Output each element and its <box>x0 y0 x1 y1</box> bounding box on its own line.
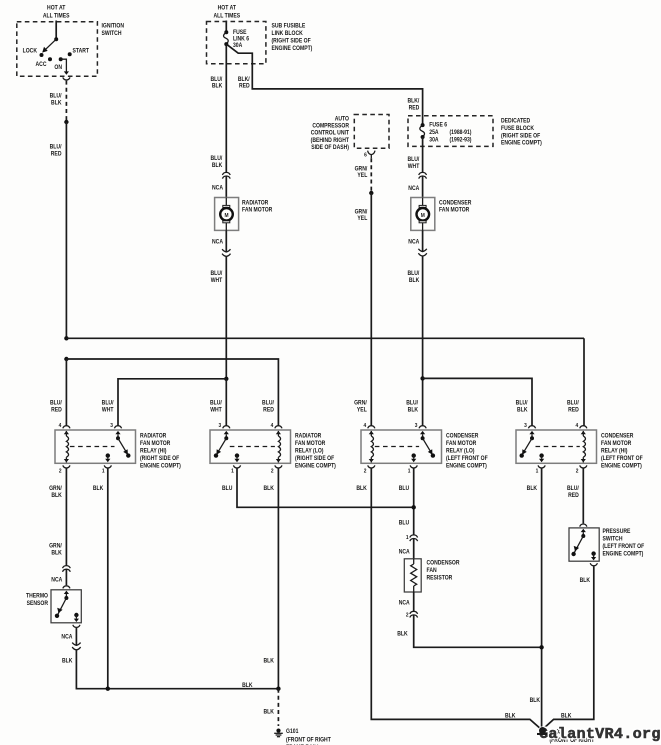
svg-text:4: 4 <box>59 423 62 429</box>
svg-text:1: 1 <box>408 468 411 474</box>
svg-text:HOT AT: HOT AT <box>47 5 66 11</box>
connector cup below thermo sensor <box>73 625 80 628</box>
svg-text:START: START <box>73 48 90 54</box>
svg-text:BLK: BLK <box>212 83 222 89</box>
terminal ON <box>59 57 63 61</box>
condenser fan resistor box <box>404 559 421 592</box>
svg-text:(FRONT OF RIGHT: (FRONT OF RIGHT <box>286 737 331 743</box>
relay dashed actuator line <box>375 446 419 448</box>
svg-text:BLU/: BLU/ <box>516 400 528 406</box>
svg-text:BLK: BLK <box>263 709 273 715</box>
svg-text:ALL TIMES: ALL TIMES <box>43 13 70 19</box>
svg-text:RELAY (HI): RELAY (HI) <box>601 448 628 454</box>
relay pin 2 (bottom) <box>275 465 282 468</box>
svg-text:HOT AT: HOT AT <box>218 5 237 11</box>
svg-text:CONTROL UNIT: CONTROL UNIT <box>311 130 350 136</box>
pressure switch output contact <box>591 551 595 555</box>
relay K3 CONDENSER FAN MOTOR RELAY (LO) box <box>361 430 442 463</box>
relay dashed actuator line <box>230 446 275 448</box>
wire bus 1 (BLU/RED) horizontal <box>66 337 584 339</box>
wire BLU/BLK dashed from ignition switch <box>65 81 67 122</box>
in-line connector (below radiator fan motor) <box>222 249 230 252</box>
wire bus 1 drop to condenser relay HI pin 4 <box>583 338 585 425</box>
svg-text:BLU/: BLU/ <box>102 400 114 406</box>
svg-text:SWITCH: SWITCH <box>602 536 622 542</box>
svg-text:BLK: BLK <box>530 697 540 703</box>
terminal ACC <box>48 57 52 61</box>
svg-text:(RIGHT SIDE OF: (RIGHT SIDE OF <box>295 455 335 461</box>
svg-text:1: 1 <box>536 468 539 474</box>
wire BLK from relay4 pin 1 to ground <box>541 468 543 730</box>
svg-text:(1992-93): (1992-93) <box>450 137 472 143</box>
svg-text:BLK: BLK <box>356 485 366 491</box>
svg-text:ENGINE COMPT): ENGINE COMPT) <box>446 463 487 469</box>
svg-text:FAN MOTOR: FAN MOTOR <box>446 440 476 446</box>
splice node (BLU/BLK to BLU/RED) <box>64 120 68 124</box>
svg-text:NCA: NCA <box>61 634 72 640</box>
svg-text:RED: RED <box>239 83 250 89</box>
svg-text:LINK 6: LINK 6 <box>233 36 249 42</box>
in-line connector 1 (resistor) <box>410 535 418 538</box>
in-line connector (thermo sensor feed) <box>63 566 71 569</box>
svg-text:4: 4 <box>363 423 366 429</box>
svg-text:SUB FUSIBLE: SUB FUSIBLE <box>271 23 305 29</box>
relay output contact <box>106 453 110 457</box>
svg-text:RELAY (LO): RELAY (LO) <box>446 448 475 454</box>
relay coil <box>276 431 281 434</box>
relay coil <box>581 431 586 434</box>
relay output contact <box>412 453 416 457</box>
svg-text:RED: RED <box>51 407 62 413</box>
svg-text:RELAY (HI): RELAY (HI) <box>140 448 167 454</box>
relay pin 2 (bottom) <box>368 465 375 468</box>
thermo sensor box <box>51 590 81 623</box>
svg-text:BLU/: BLU/ <box>407 271 419 277</box>
svg-text:RELAY (LO): RELAY (LO) <box>295 448 324 454</box>
junction node BLK (resistor return) <box>539 645 543 649</box>
wire BLK from pressure switch to ground <box>543 566 594 729</box>
auto compressor control unit dashed box <box>354 115 389 149</box>
svg-text:AUTO: AUTO <box>335 116 350 122</box>
svg-text:RADIATOR: RADIATOR <box>140 433 166 439</box>
svg-text:GRN/: GRN/ <box>49 543 62 549</box>
svg-text:BLK/: BLK/ <box>238 77 250 83</box>
wire from ON terminal out of ignition switch <box>61 59 67 71</box>
svg-text:(1988-91): (1988-91) <box>450 130 472 136</box>
relay pin 1 (bottom) <box>233 465 240 468</box>
wire BLK from thermo sensor to ground bus <box>76 650 278 689</box>
svg-text:NCA: NCA <box>408 239 419 245</box>
relay pin 2 (bottom) <box>580 465 587 468</box>
svg-text:BLU/: BLU/ <box>407 157 419 163</box>
condenser fan motor M symbol <box>422 198 424 206</box>
junction node at G101 drop <box>276 687 280 691</box>
svg-text:BLK/: BLK/ <box>407 98 419 104</box>
relay pin 1 (bottom) <box>410 465 417 468</box>
svg-text:(BEHIND RIGHT: (BEHIND RIGHT <box>311 138 350 144</box>
svg-text:SWITCH: SWITCH <box>101 30 121 36</box>
splice node (GRN/YEL) <box>369 191 373 195</box>
svg-text:YEL: YEL <box>357 407 367 413</box>
junction node BLU/BLK branch <box>420 376 424 380</box>
svg-text:ENGINE COMPT): ENGINE COMPT) <box>601 463 642 469</box>
wire BLU from relay2 pin 1 to condenser fan resistor feed <box>237 468 414 507</box>
svg-text:FAN MOTOR: FAN MOTOR <box>140 440 170 446</box>
connector cup at thermo sensor <box>63 586 70 589</box>
svg-text:BLK: BLK <box>93 485 103 491</box>
relay dashed actuator line <box>70 446 115 448</box>
svg-text:RESISTOR: RESISTOR <box>427 575 453 581</box>
svg-text:1: 1 <box>406 535 409 541</box>
thermo sensor output contact <box>74 613 78 617</box>
svg-text:(LEFT FRONT OF: (LEFT FRONT OF <box>601 455 643 461</box>
svg-text:25A: 25A <box>429 130 438 136</box>
svg-text:BLU/: BLU/ <box>210 156 222 162</box>
wire BLU/WHT from fuse 6 to condenser fan motor <box>422 137 424 173</box>
svg-text:BLK: BLK <box>51 493 61 499</box>
svg-text:YEL: YEL <box>357 173 367 179</box>
wire BLU/BLK from fuse link down to radiator fan motor <box>225 44 227 173</box>
terminal LOCK <box>40 53 44 57</box>
wire BLU/RED from relay4 pin 2 to pressure switch <box>582 468 584 523</box>
pressure switch internals <box>581 529 586 532</box>
svg-text:BLK: BLK <box>51 100 61 106</box>
fuse 6 top terminal <box>421 123 425 127</box>
relay K1 RADIATOR FAN MOTOR RELAY (HI) box <box>55 430 136 463</box>
ground G202 symbol <box>540 729 544 733</box>
junction node bus 2 <box>64 357 68 361</box>
svg-text:IGNITION: IGNITION <box>101 23 124 29</box>
relay coil <box>64 431 69 434</box>
svg-text:FUSE: FUSE <box>233 29 247 35</box>
svg-text:CONDENSER: CONDENSER <box>601 433 633 439</box>
svg-text:BLK: BLK <box>212 163 222 169</box>
svg-text:BLU/: BLU/ <box>210 271 222 277</box>
relay pin 4 (top) <box>368 426 375 429</box>
resistor zigzag element <box>413 559 415 564</box>
svg-text:RED: RED <box>568 407 579 413</box>
in-line connector (radiator fan motor feed) <box>222 172 230 175</box>
svg-text:FUSE 6: FUSE 6 <box>429 122 447 128</box>
svg-text:DEDICATED: DEDICATED <box>501 118 530 124</box>
wire BLU/BLK condenser motor down to relays <box>422 256 424 426</box>
svg-text:CONDENSER: CONDENSER <box>446 433 478 439</box>
svg-text:WHT: WHT <box>102 407 114 413</box>
svg-text:2: 2 <box>59 468 62 474</box>
svg-text:6: 6 <box>364 152 367 158</box>
svg-text:CONDENSER: CONDENSER <box>439 200 471 206</box>
svg-text:BLK: BLK <box>517 407 527 413</box>
svg-text:1: 1 <box>102 468 105 474</box>
svg-text:BLK: BLK <box>397 631 407 637</box>
svg-text:GRN/: GRN/ <box>355 166 368 172</box>
wire BLU/WHT branch to radiator relay HI pin 3 <box>118 379 226 426</box>
connector cup below ignition switch <box>63 77 70 80</box>
svg-text:NCA: NCA <box>399 549 410 555</box>
svg-text:BLU/: BLU/ <box>262 400 274 406</box>
svg-text:FAN MOTOR: FAN MOTOR <box>295 440 325 446</box>
fuse link 6 top terminal <box>224 30 228 34</box>
svg-text:BLK: BLK <box>580 578 590 584</box>
ignition switch pivot <box>54 37 58 41</box>
svg-text:COMPRESSOR: COMPRESSOR <box>312 123 349 129</box>
svg-text:G101: G101 <box>286 729 298 735</box>
relay switch blade <box>115 431 120 434</box>
svg-text:NCA: NCA <box>51 577 62 583</box>
relay dashed actuator line <box>536 446 580 448</box>
relay switch blade <box>529 431 534 434</box>
svg-text:GRN/: GRN/ <box>355 209 368 215</box>
wire NCA/BLK below thermo sensor <box>75 628 77 645</box>
relay output contact <box>539 453 543 457</box>
relay output contact <box>235 453 239 457</box>
svg-text:2: 2 <box>406 612 409 618</box>
svg-text:THERMO: THERMO <box>26 593 49 599</box>
svg-text:3: 3 <box>415 423 418 429</box>
svg-text:RED: RED <box>568 492 579 498</box>
svg-text:NCA: NCA <box>212 185 223 191</box>
svg-text:FAN MOTOR: FAN MOTOR <box>601 440 631 446</box>
in-line connector (below condenser fan motor) <box>418 249 426 252</box>
sub fusible link block dashed box <box>207 22 266 64</box>
svg-text:BLU/: BLU/ <box>567 400 579 406</box>
svg-text:FAN MOTOR: FAN MOTOR <box>242 207 272 213</box>
svg-text:BLK: BLK <box>242 683 252 689</box>
svg-text:BLU/: BLU/ <box>50 93 62 99</box>
junction node BLU (resistor feed) <box>412 505 416 509</box>
svg-text:WHT: WHT <box>210 407 222 413</box>
connector cup below pressure switch <box>590 563 597 566</box>
in-line connector (condenser fan motor feed) <box>419 172 427 175</box>
relay pin 4 (top) <box>63 426 70 429</box>
wire GRN/YEL solid down to condenser relay LO <box>370 193 372 426</box>
relay switch blade <box>224 431 229 434</box>
svg-text:LINK BLOCK: LINK BLOCK <box>271 30 302 36</box>
ignition switch dashed box <box>17 22 98 77</box>
relay pin 3 (top) <box>223 426 230 429</box>
wire BLK/RED branch from fuse link to dedicated fuse block <box>226 44 422 125</box>
wire: HOT AT ALL TIMES feed to ignition switch <box>55 21 57 40</box>
in-line connector 2 (resistor) <box>410 611 418 614</box>
svg-text:2: 2 <box>271 468 274 474</box>
svg-text:3: 3 <box>218 423 221 429</box>
junction node BLU/WHT branch <box>224 377 228 381</box>
condenser fan motor box <box>411 198 435 231</box>
svg-text:BLK: BLK <box>505 713 515 719</box>
wire BLK from relay3 pin 2 to ground <box>371 468 541 729</box>
svg-text:2: 2 <box>364 468 367 474</box>
svg-text:(LEFT FRONT OF: (LEFT FRONT OF <box>446 455 488 461</box>
svg-text:ENGINE COMPT): ENGINE COMPT) <box>501 140 542 146</box>
svg-text:WHT: WHT <box>408 164 420 170</box>
relay coil <box>369 431 374 434</box>
svg-text:FAN: FAN <box>427 568 437 574</box>
wire BLU/BLK branch to condenser relay HI pin 3 <box>423 378 532 425</box>
wire: HOT AT ALL TIMES feed to sub fusible link block <box>225 21 227 33</box>
svg-text:BLU/: BLU/ <box>50 144 62 150</box>
svg-text:ENGINE COMPT): ENGINE COMPT) <box>295 463 336 469</box>
relay pin 3 (top) <box>528 426 535 429</box>
svg-text:WHT: WHT <box>211 278 223 284</box>
svg-text:CONDENSOR: CONDENSOR <box>427 560 460 566</box>
thermo sensor switch internals <box>64 591 69 594</box>
fuse 6 bottom terminal <box>421 135 425 139</box>
junction node ground bus left <box>106 687 110 691</box>
svg-text:3: 3 <box>524 423 527 429</box>
ground G101 symbol <box>276 729 280 733</box>
svg-text:ACC: ACC <box>36 62 47 68</box>
svg-text:BLK: BLK <box>408 407 418 413</box>
wire GRN/BLK from relay1 pin 2 <box>65 468 67 566</box>
svg-text:SIDE OF DASH): SIDE OF DASH) <box>311 145 349 151</box>
svg-text:30A: 30A <box>233 43 242 49</box>
wire BLU from relay3 pin 1 to condenser fan resistor <box>413 468 415 535</box>
watermark GalantVR4.org <box>539 725 661 743</box>
svg-text:ENGINE COMPT): ENGINE COMPT) <box>140 463 181 469</box>
wire BLU/WHT down to radiator relay LO pin 3 <box>225 379 227 426</box>
connector cup at pressure switch <box>580 524 587 527</box>
svg-text:1: 1 <box>231 468 234 474</box>
relay pin 2 (bottom) <box>63 465 70 468</box>
wire BLU/RED down to bus <box>65 122 67 338</box>
svg-text:BLK: BLK <box>62 658 72 664</box>
svg-text:M: M <box>421 213 426 219</box>
wire NCA below condenser fan motor <box>422 230 424 251</box>
relay switch blade <box>420 431 425 434</box>
radiator fan motor box <box>215 198 239 231</box>
svg-text:RADIATOR: RADIATOR <box>242 200 268 206</box>
svg-text:RED: RED <box>409 105 420 111</box>
svg-text:BLK: BLK <box>561 713 571 719</box>
svg-text:FAN MOTOR: FAN MOTOR <box>439 207 469 213</box>
svg-text:(RIGHT SIDE OF: (RIGHT SIDE OF <box>501 133 541 139</box>
svg-text:BLU: BLU <box>222 485 232 491</box>
in-line connector (below thermo sensor) <box>72 643 80 646</box>
ground G202 dot visible over watermark <box>539 727 546 734</box>
svg-text:4: 4 <box>575 423 578 429</box>
relay pin 1 (bottom) <box>104 465 111 468</box>
svg-text:NCA: NCA <box>212 239 223 245</box>
wire NCA below radiator fan motor <box>225 230 227 252</box>
svg-text:4: 4 <box>271 423 274 429</box>
svg-text:RED: RED <box>263 407 274 413</box>
relay pin 3 (top) <box>114 426 121 429</box>
svg-text:ENGINE COMPT): ENGINE COMPT) <box>271 45 312 51</box>
pressure switch box <box>569 528 599 561</box>
svg-text:GRN/: GRN/ <box>354 400 367 406</box>
svg-text:ALL TIMES: ALL TIMES <box>213 13 240 19</box>
wire BLU/RED down to radiator relay HI pin 4 <box>65 359 67 426</box>
svg-text:YEL: YEL <box>357 216 367 222</box>
wire GRN/YEL dashed from control unit <box>370 158 372 193</box>
wire BLK from resistor to junction <box>414 615 542 647</box>
wire bus 2 (BLU/RED) to radiator relay LO pin 4 <box>66 359 278 426</box>
svg-text:BLU/: BLU/ <box>210 400 222 406</box>
svg-text:2: 2 <box>576 468 579 474</box>
ignition switch blade to LOCK <box>45 39 57 50</box>
svg-text:GRN/: GRN/ <box>49 486 62 492</box>
svg-text:BLK: BLK <box>263 485 273 491</box>
svg-text:NCA: NCA <box>399 600 410 606</box>
svg-text:BLK: BLK <box>409 278 419 284</box>
terminal START <box>68 52 72 56</box>
svg-text:NCA: NCA <box>408 186 419 192</box>
fuse link 6 bottom terminal <box>224 42 228 46</box>
svg-text:BLK: BLK <box>263 658 273 664</box>
relay pin 3 (top) <box>419 426 426 429</box>
svg-text:BLU: BLU <box>399 520 409 526</box>
relay pin 4 (top) <box>580 426 587 429</box>
svg-text:BLU/: BLU/ <box>210 77 222 83</box>
svg-text:PRESSURE: PRESSURE <box>602 529 630 535</box>
wire BLK from relay1 pin 1 <box>107 468 109 689</box>
svg-text:BLU/: BLU/ <box>406 400 418 406</box>
svg-text:BLU/: BLU/ <box>567 485 579 491</box>
svg-text:RADIATOR: RADIATOR <box>295 433 321 439</box>
wire BLK from relay2 pin 2 to ground G101 <box>277 468 279 689</box>
dedicated fuse block dashed box <box>408 116 493 147</box>
svg-text:(RIGHT SIDE OF: (RIGHT SIDE OF <box>140 455 180 461</box>
svg-text:BLK: BLK <box>527 485 537 491</box>
svg-text:SENSOR: SENSOR <box>27 601 48 607</box>
svg-text:BLU/: BLU/ <box>50 400 62 406</box>
svg-text:ON: ON <box>54 65 62 71</box>
wire BLK dashed to ground G101 <box>277 689 279 726</box>
svg-text:BLU: BLU <box>399 485 409 491</box>
svg-text:FUSE BLOCK: FUSE BLOCK <box>501 126 534 132</box>
svg-text:3: 3 <box>110 423 113 429</box>
svg-text:BLK: BLK <box>51 550 61 556</box>
relay K4 CONDENSER FAN MOTOR RELAY (HI) box <box>516 430 597 463</box>
svg-text:(RIGHT SIDE OF: (RIGHT SIDE OF <box>271 38 311 44</box>
svg-text:30A: 30A <box>429 137 438 143</box>
wire BLU/WHT radiator motor to relays <box>225 256 227 378</box>
relay pin 4 (top) <box>275 426 282 429</box>
wire NCA below resistor <box>413 592 415 612</box>
relay K2 RADIATOR FAN MOTOR RELAY (LO) box <box>210 430 291 463</box>
svg-text:RED: RED <box>51 151 62 157</box>
svg-text:LOCK: LOCK <box>23 48 37 54</box>
relay pin 1 (bottom) <box>538 465 545 468</box>
svg-text:M: M <box>224 213 229 219</box>
svg-text:(LEFT FRONT OF: (LEFT FRONT OF <box>602 544 644 550</box>
junction node bus 1 <box>64 336 68 340</box>
svg-text:ENGINE COMPT): ENGINE COMPT) <box>602 551 643 557</box>
radiator fan motor M symbol <box>225 198 227 206</box>
